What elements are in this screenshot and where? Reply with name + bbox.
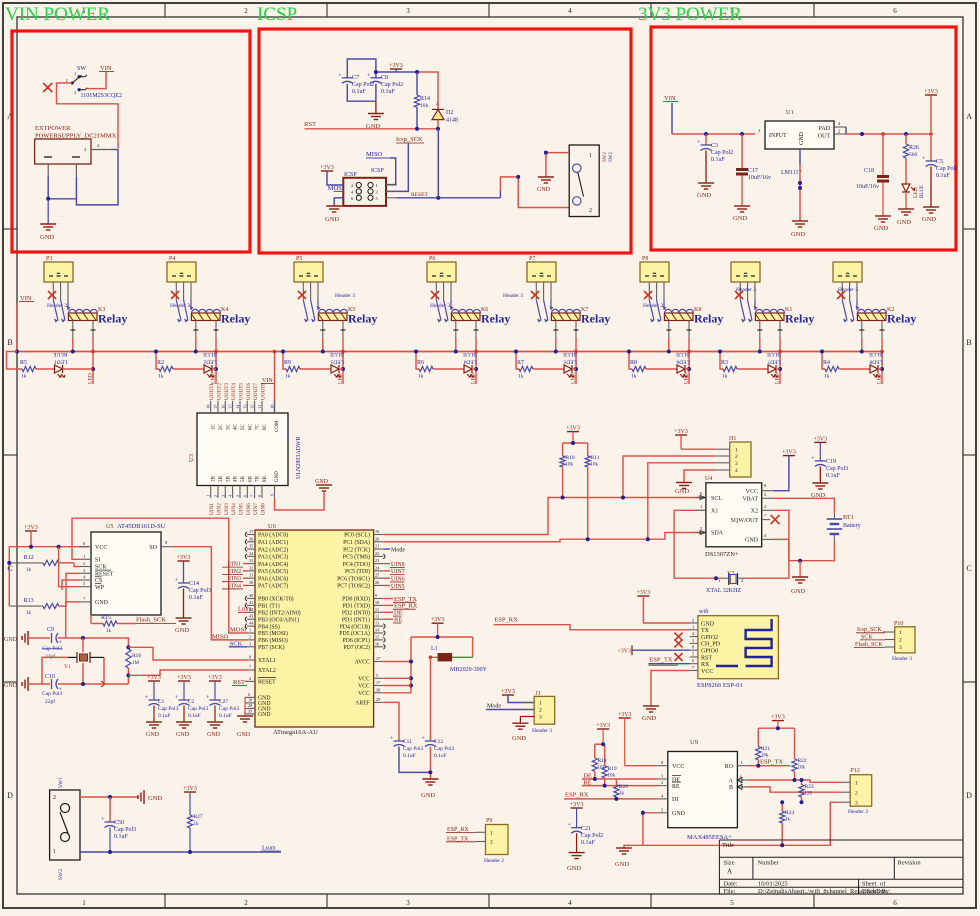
no-connect X on header pin — [431, 291, 439, 299]
svg-text:BLUE: BLUE — [920, 185, 925, 198]
svg-text:+3V3: +3V3 — [177, 555, 191, 561]
relay K4 contacts — [176, 300, 193, 323]
svg-text:1: 1 — [74, 71, 76, 76]
svg-text:PD2 (INT0): PD2 (INT0) — [342, 610, 370, 617]
svg-text:XTAL2: XTAL2 — [258, 668, 276, 674]
svg-text:0.1uF: 0.1uF — [189, 595, 204, 601]
ground GND below C5 — [930, 167, 932, 208]
wire AREF to C11 — [383, 702, 399, 741]
svg-text:PA5 (ADC5): PA5 (ADC5) — [258, 568, 288, 575]
svg-text:4: 4 — [568, 7, 572, 15]
header P8 Header 3 — [833, 262, 862, 300]
svg-text:U5: U5 — [106, 524, 113, 530]
ground GND below C2 — [183, 706, 185, 723]
svg-text:GND: GND — [672, 811, 686, 817]
svg-text:Relay: Relay — [481, 312, 510, 326]
svg-text:Cap Pol2: Cap Pol2 — [936, 166, 958, 172]
header ICSP 2x3 — [334, 168, 397, 206]
svg-text:UIN1: UIN1 — [209, 503, 215, 515]
svg-text:20: 20 — [375, 536, 379, 541]
wire bus tap — [416, 352, 419, 370]
svg-text:2: 2 — [661, 780, 663, 785]
power +3V3 flash — [24, 525, 38, 547]
svg-text:PC2 (TCK): PC2 (TCK) — [343, 546, 370, 553]
svg-text:Relay: Relay — [887, 312, 916, 326]
capacitor C50 Cap Pol3 0.1uF — [101, 797, 136, 852]
junction — [415, 127, 419, 131]
svg-text:C10: C10 — [45, 674, 55, 680]
header P7 Header 3 — [503, 256, 556, 300]
svg-text:1: 1 — [589, 153, 592, 159]
svg-text:1k: 1k — [158, 374, 164, 380]
svg-text:6C: 6C — [248, 424, 253, 431]
svg-text:SI: SI — [95, 558, 100, 564]
svg-text:560: 560 — [909, 152, 918, 158]
svg-text:Header 3: Header 3 — [503, 293, 523, 299]
wire to C10 — [28, 683, 50, 685]
svg-text:0.1uF: 0.1uF — [581, 840, 596, 846]
svg-text:GND: GND — [4, 683, 18, 689]
resistor R5 1k — [20, 360, 36, 380]
svg-text:1: 1 — [539, 701, 542, 707]
svg-text:GND: GND — [791, 588, 805, 595]
svg-text:UIN3: UIN3 — [224, 503, 230, 515]
connector CAN switch SW2 — [569, 145, 614, 217]
svg-text:+3V3: +3V3 — [389, 63, 403, 69]
power +3V3 at ESP GND pin — [637, 590, 690, 623]
junction — [516, 175, 520, 179]
svg-text:2: 2 — [244, 899, 248, 907]
svg-text:GND: GND — [237, 732, 251, 738]
svg-text:10/01/2025: 10/01/2025 — [758, 881, 788, 888]
LED LED3 BLUE — [329, 351, 344, 377]
wire LED cathode to coil return — [776, 368, 780, 370]
ground GND below battery — [799, 561, 801, 577]
switch SW1 — [50, 777, 80, 880]
junction — [81, 682, 85, 686]
ground GND below ESP — [643, 706, 659, 712]
header P8 Header 3 — [640, 256, 669, 309]
wire U4 GND down — [773, 539, 800, 560]
svg-text:A: A — [966, 112, 972, 121]
junction — [641, 811, 645, 815]
svg-text:P10: P10 — [894, 621, 903, 627]
svg-text:LED4: LED4 — [463, 359, 477, 365]
svg-text:LED8: LED8 — [869, 359, 883, 365]
svg-text:1101M2S3CQE2: 1101M2S3CQE2 — [81, 93, 122, 99]
svg-text:PAD: PAD — [819, 126, 831, 132]
svg-text:10k: 10k — [608, 774, 616, 779]
svg-text:Number: Number — [758, 860, 780, 867]
svg-text:C2: C2 — [188, 699, 195, 705]
relay K2 coil — [857, 307, 894, 321]
wire MISO to ICSP header — [386, 158, 396, 185]
wire regulator output rail — [845, 127, 847, 134]
svg-text:GND: GND — [922, 216, 936, 223]
ground GND of U1 — [799, 149, 801, 165]
svg-text:RST: RST — [304, 121, 316, 128]
svg-text:RO: RO — [725, 764, 734, 770]
ground left of C9 — [22, 631, 28, 645]
svg-text:GPIO2: GPIO2 — [701, 635, 718, 641]
svg-text:VCC: VCC — [672, 764, 684, 770]
power +3V3 H1 — [674, 429, 688, 449]
no-connect X on header pin — [171, 291, 179, 299]
svg-text:MOSI: MOSI — [230, 627, 246, 634]
net labels UIN1-4 left — [222, 562, 247, 590]
svg-text:R23: R23 — [805, 784, 814, 790]
junction — [108, 850, 112, 854]
wire LED cathode to coil return — [572, 368, 576, 370]
wire C7 C8 loop — [347, 59, 376, 78]
svg-text:Drawn By:: Drawn By: — [862, 888, 891, 895]
svg-text:GND: GND — [701, 621, 715, 627]
wire U6 GND pins to ground — [244, 697, 246, 716]
svg-text:23: 23 — [375, 558, 379, 563]
svg-text:SW2: SW2 — [603, 152, 608, 163]
header P4 Header 3 — [167, 256, 196, 309]
power +3V3 output — [924, 89, 938, 134]
resistor R23 — [799, 780, 814, 802]
svg-text:GND: GND — [207, 732, 221, 738]
svg-text:UOUT4: UOUT4 — [231, 383, 237, 400]
svg-text:22pf: 22pf — [45, 653, 55, 660]
wire LED cathode to coil return — [339, 368, 343, 370]
svg-text:Header 3: Header 3 — [892, 656, 912, 662]
no-connect X on SQW/OUT — [771, 515, 780, 524]
svg-text:2: 2 — [244, 7, 248, 15]
svg-text:GPIO0: GPIO0 — [701, 649, 718, 655]
IC U5 AT45DB161D-SU — [79, 523, 173, 615]
svg-text:22: 22 — [375, 551, 379, 556]
svg-text:SW2: SW2 — [609, 152, 614, 163]
svg-text:Mode: Mode — [487, 704, 501, 710]
svg-text:2: 2 — [53, 795, 56, 801]
svg-text:32: 32 — [249, 565, 253, 570]
svg-text:5B: 5B — [241, 476, 246, 483]
svg-text:PC5 (TDI): PC5 (TDI) — [345, 568, 370, 575]
svg-text:33: 33 — [249, 558, 253, 563]
red highlight box 3V3 POWER — [651, 27, 956, 250]
wire C11 C12 commons — [399, 747, 430, 773]
resistor R19 10k — [602, 766, 617, 786]
svg-text:P3: P3 — [46, 256, 52, 262]
svg-text:ICSP: ICSP — [371, 168, 384, 174]
svg-text:L1: L1 — [431, 646, 438, 652]
svg-text:+3V3: +3V3 — [637, 590, 651, 596]
svg-text:Header 3: Header 3 — [430, 303, 450, 309]
wire flash CS stub — [62, 580, 79, 590]
svg-text:PA4 (ADC4): PA4 (ADC4) — [258, 561, 288, 568]
svg-text:P4: P4 — [169, 256, 175, 262]
wire LED cathode to coil return — [63, 368, 94, 370]
no-connect X on header pin — [735, 291, 743, 299]
svg-text:PC6 (TOSC1): PC6 (TOSC1) — [337, 575, 370, 582]
svg-text:27: 27 — [376, 656, 380, 661]
svg-text:0.1uF: 0.1uF — [711, 157, 726, 163]
svg-text:B: B — [966, 338, 971, 347]
svg-text:Cap Pol3: Cap Pol3 — [188, 706, 209, 712]
wire coil to bus — [193, 321, 218, 385]
svg-text:U9: U9 — [690, 739, 698, 746]
net labels UIN1-8 — [209, 503, 266, 515]
svg-text:ESP_TX: ESP_TX — [649, 657, 672, 664]
svg-text:2: 2 — [351, 183, 353, 188]
svg-text:1: 1 — [206, 495, 211, 497]
svg-text:1: 1 — [53, 849, 56, 855]
ground GND below C7 C8 — [375, 101, 377, 113]
wire LED cathode to coil return — [212, 368, 216, 370]
wire Icsp_SCK to ICSP header — [386, 143, 408, 191]
svg-text:PB0 (XCK/T0): PB0 (XCK/T0) — [258, 596, 294, 603]
resistor R10 10k — [560, 443, 575, 498]
svg-text:17: 17 — [376, 680, 380, 685]
junction — [374, 70, 378, 74]
wire X1 to crystal — [695, 509, 706, 511]
svg-text:PB2 (INT2/AIN0): PB2 (INT2/AIN0) — [258, 610, 301, 617]
svg-text:PC3 (TMS): PC3 (TMS) — [343, 554, 370, 561]
svg-text:1k: 1k — [631, 374, 637, 380]
svg-text:Cap Pol3: Cap Pol3 — [158, 706, 179, 712]
svg-text:VCC: VCC — [746, 489, 758, 495]
svg-text:SQW/OUT: SQW/OUT — [731, 518, 759, 524]
svg-text:B: B — [7, 338, 12, 347]
ground left of C10 — [22, 677, 28, 691]
junction — [436, 196, 440, 200]
no-connect X on header pin — [48, 291, 56, 299]
wire R16 to XTAL1 — [128, 647, 247, 660]
net labels UOUT1-8 — [209, 383, 266, 400]
svg-text:PB5 (MOSI): PB5 (MOSI) — [258, 630, 288, 637]
wire R to LED — [173, 368, 204, 370]
wire Lsum row — [80, 851, 281, 853]
svg-text:Relay: Relay — [785, 312, 814, 326]
svg-text:0.1uF: 0.1uF — [381, 89, 396, 95]
wire coil to bus — [666, 321, 691, 385]
svg-text:14: 14 — [235, 404, 240, 409]
svg-text:2: 2 — [249, 634, 251, 639]
header P6 Header 3 — [427, 256, 456, 309]
wire coil to bus — [553, 321, 578, 385]
svg-text:Header 3: Header 3 — [643, 303, 663, 309]
wire +3V3 to AVCC — [431, 617, 445, 637]
svg-text:2: 2 — [838, 129, 840, 134]
svg-text:28: 28 — [248, 703, 252, 708]
svg-text:SW2: SW2 — [58, 869, 64, 880]
svg-text:R26: R26 — [909, 145, 919, 151]
svg-text:5: 5 — [730, 899, 734, 907]
svg-text:PA2 (ADC2): PA2 (ADC2) — [258, 546, 288, 553]
svg-text:2: 2 — [899, 638, 902, 644]
svg-text:+3V3: +3V3 — [813, 436, 827, 442]
junction — [71, 350, 75, 354]
svg-text:1k: 1k — [285, 374, 291, 380]
wire bus tap — [156, 352, 159, 370]
svg-text:C7: C7 — [352, 75, 359, 81]
svg-text:CH_PD: CH_PD — [701, 642, 721, 648]
relay K1 coil — [755, 307, 792, 321]
net label Mode at PC2 — [383, 548, 390, 550]
svg-text:+3V3: +3V3 — [208, 675, 222, 681]
svg-text:10uF/16v: 10uF/16v — [748, 175, 771, 181]
wire VCC pins — [383, 677, 411, 679]
IC U3 ULN2803ADWR — [188, 401, 302, 498]
svg-text:DS1307ZN+: DS1307ZN+ — [705, 551, 739, 558]
svg-text:2: 2 — [84, 147, 86, 152]
svg-text:ESP_RX: ESP_RX — [565, 792, 589, 799]
svg-text:PA3 (ADC3): PA3 (ADC3) — [258, 554, 288, 561]
svg-text:0.1uF: 0.1uF — [188, 713, 201, 719]
svg-text:AVCC: AVCC — [355, 660, 370, 666]
svg-text:VCC: VCC — [358, 684, 370, 690]
no-connect X on header pin — [837, 291, 845, 299]
svg-text:PD4 (OC1B): PD4 (OC1B) — [340, 623, 371, 630]
resistor R8 1k — [630, 360, 646, 380]
svg-text:0.1uF: 0.1uF — [352, 89, 367, 95]
wire H1 pin1 to +3V3 — [681, 448, 715, 450]
svg-text:ATmega16A-AU: ATmega16A-AU — [273, 729, 318, 736]
svg-text:+3V3: +3V3 — [183, 786, 197, 792]
svg-text:0.1uF: 0.1uF — [936, 173, 951, 179]
svg-text:+3V3: +3V3 — [320, 165, 334, 171]
svg-text:VIN: VIN — [20, 295, 32, 302]
svg-text:15: 15 — [228, 404, 233, 409]
svg-text:UIN8: UIN8 — [261, 503, 267, 515]
svg-text:SW1: SW1 — [58, 777, 64, 788]
resistor R16 1M — [126, 649, 142, 684]
svg-text:1k: 1k — [518, 374, 524, 380]
svg-text:C21: C21 — [581, 826, 591, 832]
svg-text:3: 3 — [249, 641, 251, 646]
svg-text:Cap Pol3: Cap Pol3 — [826, 466, 848, 472]
svg-text:UOUT7: UOUT7 — [253, 383, 259, 400]
svg-text:10k: 10k — [798, 766, 806, 771]
svg-text:UOUT5: UOUT5 — [239, 383, 245, 400]
svg-text:GND: GND — [567, 865, 581, 872]
svg-text:0.1uF: 0.1uF — [403, 753, 416, 759]
svg-text:11: 11 — [257, 405, 262, 409]
svg-text:1k: 1k — [26, 568, 32, 573]
svg-text:+3V3: +3V3 — [147, 675, 161, 681]
svg-text:+3V3: +3V3 — [431, 617, 445, 623]
junction — [428, 770, 432, 774]
power +3V3 R27 — [183, 786, 197, 815]
svg-text:1C: 1C — [212, 424, 217, 431]
LED LED1 BLUE — [53, 351, 68, 377]
junction — [776, 726, 780, 730]
svg-text:P9: P9 — [486, 818, 492, 824]
resistor R20 — [614, 779, 629, 799]
wire coil to bus — [757, 321, 782, 385]
no-connect X on header pin — [531, 291, 539, 299]
relay K4 coil — [191, 307, 228, 321]
svg-text:VCC: VCC — [701, 669, 713, 675]
svg-text:R8: R8 — [630, 360, 637, 366]
wire R5 to LED1 — [36, 368, 55, 370]
wire flash GND down — [66, 602, 79, 638]
svg-text:EXTPOWER: EXTPOWER — [35, 125, 71, 132]
resistor R3 1k — [721, 360, 737, 380]
svg-text:2: 2 — [764, 504, 766, 509]
svg-text:PD6 (ICP1): PD6 (ICP1) — [342, 637, 370, 644]
junction — [561, 496, 565, 500]
svg-text:C27: C27 — [219, 699, 228, 705]
capacitor C21 Cap Pol2 0.1uF — [568, 802, 604, 846]
junction — [798, 559, 802, 563]
wire RESET to CAN switch — [437, 129, 439, 198]
svg-text:4C: 4C — [234, 424, 239, 431]
svg-text:PD3 (INT1): PD3 (INT1) — [342, 616, 370, 623]
svg-text:SDA: SDA — [711, 531, 724, 537]
svg-text:38: 38 — [376, 687, 380, 692]
red highlight box ICSP — [259, 29, 631, 253]
svg-text:Relay: Relay — [694, 312, 723, 326]
wire CAN pin1 to GND — [546, 153, 569, 177]
wire SW1 pin2 row — [80, 796, 138, 798]
ground GND of VIN POWER — [47, 199, 49, 224]
relay K7 contacts — [536, 300, 553, 323]
wire VBAT to battery — [773, 498, 834, 513]
module U8 ESP8266 ESP-01 — [690, 608, 779, 689]
svg-text:C5: C5 — [936, 159, 943, 165]
power +3V3 ICSP top — [389, 63, 403, 72]
svg-text:BLUE: BLUE — [868, 351, 883, 357]
IC U6 ATmega16A-AU — [245, 523, 385, 736]
svg-text:B: B — [729, 785, 733, 791]
svg-text:LED5: LED5 — [563, 359, 577, 365]
svg-text:+3V3: +3V3 — [570, 802, 584, 808]
capacitor C19 Cap Pol3 0.1uF — [811, 436, 848, 479]
resistor R4 1k — [823, 360, 839, 380]
svg-text:43: 43 — [249, 614, 253, 619]
svg-text:+3V3: +3V3 — [501, 689, 515, 695]
svg-text:3: 3 — [735, 461, 738, 467]
wire crystal left loop — [42, 657, 68, 684]
svg-text:PC0 (SCL): PC0 (SCL) — [344, 532, 370, 539]
svg-text:0.1uF: 0.1uF — [434, 753, 447, 759]
power +3V3 U9 VCC — [618, 712, 658, 766]
svg-text:ESP_TX: ESP_TX — [760, 758, 783, 765]
svg-text:R21: R21 — [761, 746, 770, 752]
svg-text:MISO: MISO — [366, 151, 383, 158]
ground GND below C11 C12 — [422, 779, 438, 785]
resistor R9 1k — [284, 360, 300, 380]
svg-text:UIN6: UIN6 — [246, 503, 252, 515]
svg-text:Icsp_SCK: Icsp_SCK — [857, 627, 882, 633]
svg-text:35: 35 — [249, 544, 253, 549]
svg-text:12: 12 — [375, 614, 379, 619]
svg-text:LM1117: LM1117 — [781, 170, 802, 176]
header P7 Header 3 — [731, 262, 760, 300]
capacitor C11 Cap Pol3 0.1uF — [390, 736, 424, 759]
svg-text:PC4 (TDO): PC4 (TDO) — [343, 561, 370, 568]
svg-text:P7: P7 — [529, 256, 535, 262]
svg-text:D2: D2 — [446, 110, 453, 116]
resistor R7 1k — [517, 360, 533, 380]
svg-text:6: 6 — [248, 692, 250, 697]
svg-text:6: 6 — [893, 7, 897, 15]
svg-text:4B: 4B — [234, 476, 239, 483]
svg-text:1: 1 — [83, 554, 85, 559]
svg-text:8C: 8C — [263, 424, 268, 431]
capacitor C14 Cap Pol3 0.1uF — [175, 578, 212, 601]
svg-text:GND: GND — [275, 471, 280, 482]
ground GND below C3 — [705, 151, 707, 184]
ground GND at H1 — [676, 483, 692, 489]
svg-text:2: 2 — [589, 208, 592, 214]
svg-text:8B: 8B — [263, 476, 268, 483]
svg-text:+3V3: +3V3 — [177, 675, 191, 681]
